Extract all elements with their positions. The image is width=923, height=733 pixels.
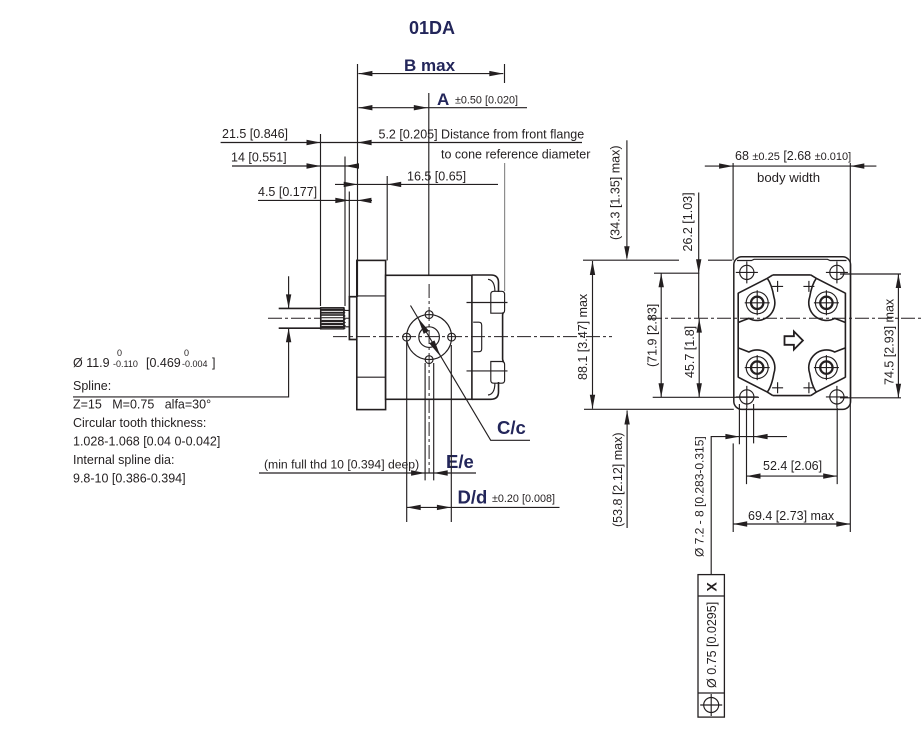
svg-text:5.2 [0.205] Distance from fron: 5.2 [0.205] Distance from front flange	[379, 128, 585, 142]
plate top lip line	[737, 259, 847, 260]
corner hole TR	[826, 261, 848, 283]
plus mark top right	[803, 281, 814, 292]
dim 68 body width	[705, 149, 877, 532]
body centerline	[333, 336, 612, 338]
svg-text:Circular tooth thickness:: Circular tooth thickness:	[73, 416, 206, 430]
extension line spline tip	[320, 134, 322, 306]
dim 4.5	[258, 185, 372, 297]
dim 88.1	[576, 261, 595, 409]
inner contour corner BL	[738, 348, 775, 396]
front flange plate	[357, 260, 386, 409]
dim 71.9	[646, 273, 700, 397]
svg-text:45.7 [1.8]: 45.7 [1.8]	[683, 326, 697, 378]
plus mark top left	[772, 281, 783, 292]
port boss top	[491, 291, 505, 313]
corner hole BL	[736, 386, 758, 408]
svg-text:69.4 [2.73] max: 69.4 [2.73] max	[748, 509, 835, 523]
drive shaft	[279, 308, 321, 328]
pump body	[386, 275, 472, 399]
svg-text:-0.110: -0.110	[113, 359, 138, 369]
body top extension line	[583, 259, 732, 261]
dim 53.8	[611, 411, 630, 529]
D/d dim	[407, 341, 560, 522]
extension line spline end	[344, 157, 346, 307]
C/c leader with arrows on bolt circle	[411, 306, 531, 441]
dim 52.4	[747, 408, 838, 484]
svg-text:14 [0.551]: 14 [0.551]	[231, 151, 287, 165]
svg-text:Internal spline dia:: Internal spline dia:	[73, 453, 174, 467]
dim 16.5	[335, 169, 498, 260]
dim 14	[231, 151, 359, 169]
inner contour corner TR	[809, 275, 846, 323]
svg-text:52.4 [2.06]: 52.4 [2.06]	[763, 459, 822, 473]
svg-text:X: X	[704, 582, 720, 592]
position tolerance symbol	[704, 698, 719, 713]
plus mark bottom right	[803, 382, 814, 393]
splined shaft teeth	[320, 308, 346, 329]
svg-text:9.8-10 [0.386-0.394]: 9.8-10 [0.386-0.394]	[73, 472, 186, 486]
svg-text:D/d: D/d	[458, 487, 488, 508]
port center lines	[467, 303, 508, 371]
plus mark bottom left	[772, 382, 783, 393]
port boss bottom	[491, 362, 505, 384]
svg-text:±0.50 [0.020]: ±0.50 [0.020]	[455, 95, 518, 107]
svg-text:16.5 [0.65]: 16.5 [0.65]	[407, 169, 466, 183]
bolt boss BR	[814, 355, 839, 380]
rear body plate	[734, 257, 851, 410]
dia 7.2-8 leader and arrows	[693, 434, 788, 575]
svg-text:(min full thd 10 [0.394] deep): (min full thd 10 [0.394] deep)	[264, 458, 419, 472]
svg-text:68 ±0.25 [2.68 ±0.010]: 68 ±0.25 [2.68 ±0.010]	[735, 149, 851, 163]
gear bore circle	[419, 327, 440, 348]
svg-text:88.1 [3.47] max: 88.1 [3.47] max	[576, 293, 590, 380]
inner contour corner TL	[738, 275, 775, 323]
shaft neck after spline	[344, 308, 349, 329]
dim 26.2	[681, 192, 701, 318]
svg-text:]: ]	[212, 356, 215, 370]
mounting hole top	[425, 311, 433, 319]
vertical centerline through circle	[428, 284, 430, 473]
dim 34.3	[609, 140, 630, 260]
svg-text:26.2 [1.03]: 26.2 [1.03]	[681, 192, 695, 251]
dim 74.5	[840, 274, 901, 398]
body bottom extension line	[584, 408, 734, 410]
svg-text:C/c: C/c	[497, 417, 526, 438]
svg-text:Ø 11.9: Ø 11.9	[73, 356, 110, 370]
flow direction block arrow	[785, 331, 803, 349]
dim 45.7	[683, 319, 702, 398]
inner body contour edges	[738, 275, 845, 396]
pilot collar	[349, 297, 356, 340]
dia 7.2-8 hole side extension lines	[739, 404, 753, 444]
svg-text:(53.8 [2.12] max): (53.8 [2.12] max)	[611, 433, 625, 528]
mounting hole bottom	[425, 356, 433, 364]
svg-text:Spline:: Spline:	[73, 379, 111, 393]
dim 69.4	[733, 443, 850, 532]
svg-text:to cone reference diameter: to cone reference diameter	[441, 148, 590, 162]
E/e dim	[259, 363, 476, 480]
svg-text:A: A	[437, 90, 449, 109]
gear chamber tab	[473, 322, 482, 352]
gear axis centerline	[648, 317, 921, 319]
dim 5.2 note with 21.5 dim line	[221, 127, 591, 162]
mounting hole right	[448, 333, 456, 341]
svg-text:0: 0	[184, 348, 189, 358]
bolt boss TR	[814, 290, 839, 315]
svg-text:[0.469: [0.469	[146, 356, 181, 370]
svg-text:(34.3 [1.35] max): (34.3 [1.35] max)	[609, 146, 623, 241]
svg-text:-0.004: -0.004	[182, 359, 208, 369]
spline text block	[73, 379, 220, 486]
corner hole BR	[826, 386, 848, 408]
dim B max	[358, 56, 505, 297]
svg-text:B max: B max	[404, 56, 456, 75]
svg-text:E/e: E/e	[446, 451, 474, 472]
rear cover inner corner lips	[488, 279, 495, 395]
svg-text:1.028-1.068 [0.04 0-0.042]: 1.028-1.068 [0.04 0-0.042]	[73, 435, 220, 449]
dia 11.9 dim arrows	[73, 276, 291, 397]
svg-text:(71.9 [2.83]: (71.9 [2.83]	[646, 304, 660, 367]
flange ear lines	[357, 296, 468, 377]
bolt circle	[407, 315, 452, 360]
corner hole TL	[736, 261, 758, 283]
extension line to cone diameter (gray)	[504, 163, 506, 291]
mounting hole left	[403, 333, 411, 341]
svg-text:body width: body width	[757, 170, 820, 185]
rear cover	[472, 275, 504, 399]
bottom holes extension line	[653, 396, 759, 398]
bolt boss BL	[745, 355, 770, 380]
svg-text:21.5 [0.846]: 21.5 [0.846]	[222, 127, 288, 141]
shaft diameter text	[73, 348, 215, 370]
svg-text:4.5 [0.177]: 4.5 [0.177]	[258, 185, 317, 199]
svg-text:±0.20 [0.008]: ±0.20 [0.008]	[492, 493, 555, 505]
svg-text:Z=15 M=0.75 alfa=30°: Z=15 M=0.75 alfa=30°	[73, 398, 211, 412]
svg-text:01DA: 01DA	[409, 18, 455, 38]
svg-text:74.5 [2.93] max: 74.5 [2.93] max	[883, 298, 897, 385]
inner contour corner BR	[809, 348, 846, 396]
feature control frame	[698, 575, 724, 718]
svg-text:Ø 0.75 [0.0295]: Ø 0.75 [0.0295]	[705, 602, 719, 688]
dim A	[358, 90, 527, 275]
svg-text:Ø 7.2 - 8 [0.283-0.315]: Ø 7.2 - 8 [0.283-0.315]	[693, 436, 707, 557]
bolt boss TL	[745, 290, 770, 315]
shaft centerline	[268, 317, 350, 319]
svg-text:0: 0	[117, 348, 122, 358]
